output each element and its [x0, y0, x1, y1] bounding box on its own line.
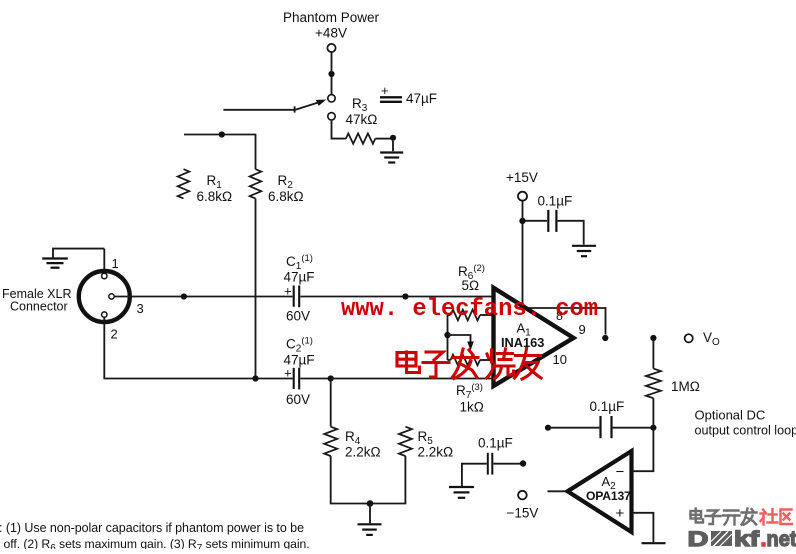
- pin 1: [102, 273, 107, 278]
- svg-text:0.1µF: 0.1µF: [590, 399, 625, 414]
- wire (left rail): [447, 315, 449, 360]
- wire (pin2 down and right): [104, 317, 292, 378]
- svg-text:+: +: [284, 366, 292, 381]
- junction (R4 top): [328, 375, 334, 381]
- logo char dian (gray): [691, 509, 704, 523]
- svg-text:47kΩ: 47kΩ: [346, 112, 378, 127]
- terminal +15V: [518, 192, 527, 201]
- svg-text:6.8kΩ: 6.8kΩ: [197, 189, 233, 204]
- capacitor 0.1uF (servo): [601, 416, 612, 438]
- watermark char shao: [487, 349, 515, 379]
- svg-text:47µF: 47µF: [406, 91, 437, 106]
- op-amp A2 OPA137: [568, 451, 632, 532]
- junction: [219, 131, 225, 137]
- resistor R5: [399, 427, 412, 456]
- svg-text:kf: kf: [734, 527, 760, 549]
- resistor R2: [250, 169, 262, 198]
- svg-text:INA163: INA163: [501, 335, 544, 350]
- terminal Vo: [685, 334, 693, 342]
- svg-text:−15V: −15V: [507, 506, 539, 521]
- ground: [380, 153, 403, 163]
- junction: [650, 425, 656, 431]
- wire: [652, 341, 654, 369]
- svg-text:+: +: [381, 83, 389, 98]
- svg-text:60V: 60V: [286, 309, 310, 324]
- svg-text:9: 9: [579, 322, 586, 337]
- svg-text:0.1µF: 0.1µF: [478, 436, 513, 451]
- junction: [390, 135, 396, 141]
- capacitor 0.1uF (V- bypass): [462, 436, 520, 487]
- switch S1 contact upper: [328, 95, 335, 102]
- svg-text:+15V: +15V: [506, 170, 538, 185]
- junction: [402, 293, 408, 299]
- terminal +48V: [327, 44, 335, 52]
- svg-text:output control loop: output control loop: [695, 424, 796, 438]
- watermark char dian: [397, 352, 420, 373]
- wire: [392, 141, 394, 151]
- wire: [103, 249, 105, 274]
- logo char she (red): [761, 509, 778, 525]
- svg-text:10: 10: [553, 352, 567, 367]
- wire: [613, 427, 654, 429]
- wire (C2 to A1 -in): [300, 378, 493, 380]
- svg-text:Optional DC: Optional DC: [695, 408, 766, 423]
- wire (into A1 V+): [522, 223, 524, 306]
- ground: [642, 542, 666, 544]
- wire: [332, 120, 346, 139]
- wire: [522, 201, 524, 218]
- logo char fa (gray): [742, 509, 757, 525]
- ground: [449, 487, 474, 498]
- potentiometer wiper arrow: [467, 342, 474, 351]
- junction (servo out): [545, 425, 551, 431]
- switch S1 contact lower: [328, 113, 335, 120]
- svg-text:2.2kΩ: 2.2kΩ: [418, 445, 454, 460]
- wire: [369, 504, 371, 524]
- watermark char zi: [423, 352, 449, 377]
- resistor R1: [178, 169, 190, 198]
- wire: [331, 52, 333, 71]
- wire: [331, 77, 333, 95]
- svg-text:3: 3: [137, 301, 144, 316]
- svg-text:6.8kΩ: 6.8kΩ: [268, 189, 304, 204]
- logo char zi (gray): [706, 511, 721, 525]
- wire: [331, 456, 406, 504]
- logo char qu (red): [781, 510, 793, 525]
- capacitor C1: [294, 286, 300, 308]
- ground: [358, 524, 382, 535]
- junction (to 1M): [650, 335, 656, 341]
- wire (A2 +in to ground): [632, 513, 653, 542]
- svg-text:Connector: Connector: [10, 300, 68, 314]
- wire (wiper): [448, 335, 471, 342]
- wire: [255, 199, 257, 379]
- op-amp A1 INA163: [494, 288, 574, 386]
- wire (pin3 to C1): [114, 296, 292, 298]
- junction node A: [181, 293, 187, 299]
- junction: [520, 460, 526, 466]
- capacitor 0.1uF (V+ bypass): [548, 210, 556, 232]
- svg-text:net: net: [767, 527, 796, 549]
- svg-text:60V: 60V: [286, 392, 310, 407]
- junction: [519, 218, 525, 224]
- resistor R3: [346, 133, 375, 143]
- logo char kai (gray): [723, 511, 740, 525]
- svg-text:2.2kΩ: 2.2kΩ: [345, 445, 381, 460]
- wire (pin 8 to output): [527, 308, 606, 335]
- ground (XLR shield): [53, 249, 104, 258]
- wire: [652, 398, 654, 427]
- resistor 1Mohm: [646, 369, 661, 399]
- resistor R6: [448, 310, 494, 321]
- capacitor C2: [294, 368, 300, 390]
- connector J1 Female XLR body: [79, 271, 130, 322]
- wire: [330, 379, 332, 427]
- wire (C1 to A1 +in): [300, 296, 493, 298]
- wire: [548, 427, 599, 429]
- watermark char fa: [453, 349, 479, 379]
- svg-text:1kΩ: 1kΩ: [460, 400, 484, 415]
- svg-text:: (1) Use non-polar capacitors: : (1) Use non-polar capacitors if phanto…: [0, 521, 304, 535]
- junction: [328, 71, 334, 77]
- svg-text:+: +: [616, 505, 625, 522]
- svg-text:+48V: +48V: [315, 26, 347, 41]
- svg-text:−: −: [616, 464, 625, 481]
- wire: [184, 134, 256, 136]
- svg-text:OPA137: OPA137: [586, 489, 631, 503]
- terminal -15V: [518, 491, 527, 500]
- ground: [572, 246, 596, 256]
- svg-text:2: 2: [111, 327, 118, 342]
- pin 2: [102, 312, 107, 317]
- watermark char you: [515, 349, 542, 380]
- junction: [367, 500, 374, 507]
- svg-text:www. elecfans. com: www. elecfans. com: [341, 296, 598, 323]
- svg-text:47µF: 47µF: [284, 270, 315, 285]
- wire: [223, 109, 294, 111]
- svg-text:0.1µF: 0.1µF: [538, 194, 573, 209]
- wire (A2 output): [548, 490, 568, 492]
- svg-text:D: D: [688, 527, 709, 549]
- resistor R7: [448, 355, 494, 366]
- wire: [375, 138, 390, 140]
- svg-text:1: 1: [112, 256, 119, 271]
- svg-text:1MΩ: 1MΩ: [671, 379, 700, 394]
- junction (wiper tap): [444, 332, 450, 338]
- resistor R4: [324, 427, 337, 456]
- svg-text:Phantom Power: Phantom Power: [283, 10, 380, 25]
- svg-text:+: +: [284, 284, 292, 299]
- wire: [558, 221, 584, 245]
- svg-text:5Ω: 5Ω: [462, 278, 480, 293]
- switch S1 lever: [295, 100, 327, 113]
- wire: [523, 220, 548, 222]
- pin 3: [109, 294, 114, 299]
- svg-text:off. (2) R6 sets maximum gain.: off. (2) R6 sets maximum gain. (3) R7 se…: [4, 537, 310, 549]
- junction (R2 bottom): [252, 375, 258, 381]
- logo text DZkf.net: [688, 527, 796, 551]
- capacitor 47uF (phantom filter): [380, 83, 437, 106]
- wire (to A2 -in): [632, 428, 653, 472]
- junction (output sense): [602, 335, 608, 341]
- wire: [255, 135, 257, 170]
